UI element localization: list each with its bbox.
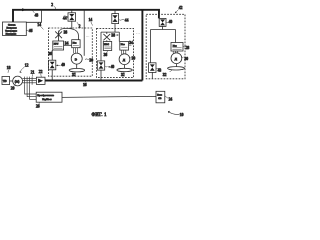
svg-text:2: 2 (51, 3, 53, 7)
fan motor circle outdoor (171, 53, 182, 64)
node label 28 outdoor (183, 45, 185, 47)
heat exchanger box HX1 left (53, 41, 64, 50)
node label 30 left (85, 58, 89, 61)
svg-text:34: 34 (129, 41, 133, 45)
svg-text:14: 14 (89, 18, 93, 22)
svg-text:34: 34 (65, 42, 69, 46)
svg-text:12: 12 (25, 63, 29, 67)
node label 34 middle (129, 44, 131, 46)
fan blade lens middle (124, 65, 126, 69)
svg-text:43: 43 (158, 69, 162, 73)
svg-text:44: 44 (125, 18, 129, 22)
node label 12 curved arrow (20, 67, 24, 72)
valve V44b middle top (114, 10, 116, 32)
heat exchanger box HX2 middle (120, 42, 129, 51)
node label 40 outdoor (166, 21, 168, 23)
svg-text:24: 24 (169, 98, 173, 102)
node label 32 left (75, 72, 76, 73)
node label 24 (165, 96, 168, 98)
svg-text:36: 36 (48, 52, 52, 56)
valve V40b middle bottom (97, 61, 104, 70)
svg-text:21: 21 (31, 71, 35, 75)
fan motor circle left (71, 53, 82, 64)
wire middle header (101, 32, 119, 61)
fan motor circle middle (119, 54, 130, 65)
svg-text:Пер/Пост: Пер/Пост (42, 99, 51, 101)
wire bold riser (141, 10, 143, 81)
wire top main pipe (13, 10, 159, 22)
converter box U26 (36, 92, 62, 102)
svg-text:ТЭ: ТЭ (3, 80, 7, 83)
valve V40c outdoor top (159, 18, 166, 26)
svg-text:30: 30 (184, 57, 188, 61)
node label 10 curved arrow (168, 111, 179, 114)
wire converter to OB box (62, 96, 156, 97)
svg-text:ФИГ. 1: ФИГ. 1 (92, 113, 108, 118)
svg-text:40: 40 (61, 63, 65, 67)
valve V43 outdoor bottom (149, 63, 156, 73)
valve V40a left bottom (49, 60, 56, 70)
node label 2 squiggle (77, 22, 78, 24)
svg-text:32: 32 (163, 73, 167, 77)
svg-text:32: 32 (72, 73, 76, 77)
fan blade lens left (76, 64, 78, 68)
control unit box U46 (3, 22, 27, 36)
svg-text:Система: Система (8, 24, 16, 26)
wire between HX boxes (64, 44, 72, 46)
shaft hatching (25, 77, 32, 85)
heat exchanger box outdoor (171, 43, 183, 52)
svg-text:30: 30 (89, 58, 93, 62)
expansion valve X left (55, 31, 62, 41)
wire gas drop pipe left (83, 10, 85, 56)
wire control box to pipe (26, 10, 41, 22)
expansion valve X middle (103, 34, 110, 40)
wire arrowhead on top pipe (22, 8, 27, 11)
wire HX1 down to valve left (51, 50, 53, 60)
svg-text:···: ··· (86, 33, 90, 38)
svg-text:44: 44 (63, 17, 67, 21)
svg-text:26: 26 (36, 105, 40, 109)
svg-text:18: 18 (7, 66, 11, 70)
wire valve to bottom pipe middle (100, 70, 102, 80)
svg-text:(М): (М) (15, 79, 20, 83)
wires down to converter (25, 85, 37, 100)
svg-text:36: 36 (104, 53, 108, 57)
dashed enclosure middle indoor unit (97, 28, 134, 77)
svg-text:Помещения: Помещения (6, 33, 16, 35)
svg-text:ОВ: ОВ (158, 98, 162, 100)
node label 46 (26, 29, 28, 32)
node label 40 middle (105, 66, 107, 68)
heat exchanger box HX1 middle (103, 42, 111, 51)
fan legs left (74, 48, 78, 54)
pump box P (36, 77, 45, 84)
svg-text:28: 28 (186, 46, 190, 50)
fan blade lens outdoor (175, 64, 177, 67)
svg-text:НРТ: НРТ (54, 43, 59, 46)
heat exchanger box HX2 left (72, 40, 80, 48)
pipe arch left unit (59, 28, 79, 39)
svg-text:38: 38 (64, 30, 68, 34)
OB unit box U24 (156, 91, 165, 103)
svg-text:16: 16 (83, 83, 87, 87)
node label 43 (156, 67, 158, 69)
svg-text:22: 22 (39, 70, 43, 74)
wire valve to dashed bottom (151, 72, 153, 78)
svg-text:14: 14 (37, 23, 41, 27)
fan legs outdoor (173, 51, 177, 53)
svg-text:30: 30 (132, 56, 136, 60)
svg-text:38: 38 (111, 34, 115, 38)
svg-text:···: ··· (136, 31, 140, 36)
node label 30 outdoor (182, 56, 183, 58)
wire valve to bottom pipe left (51, 70, 53, 81)
node label 44 middle (119, 18, 124, 21)
svg-text:20: 20 (11, 87, 15, 91)
node label 30 middle (130, 56, 131, 58)
svg-text:Преобразователь: Преобразователь (37, 94, 54, 97)
svg-text:46: 46 (29, 29, 33, 33)
dashed enclosure left indoor unit (49, 28, 93, 76)
svg-text:42: 42 (179, 6, 183, 10)
motor M circle (13, 76, 23, 86)
svg-text:Температуры: Температуры (5, 30, 17, 32)
svg-text:Контроля и: Контроля и (7, 27, 18, 29)
wire outdoor header (151, 26, 176, 62)
svg-text:32: 32 (121, 73, 125, 77)
fan legs middle (122, 50, 126, 54)
wire bottom main pipe (45, 80, 142, 82)
svg-text:40: 40 (111, 65, 115, 69)
node label 32 outdoor (170, 70, 172, 72)
svg-text:48: 48 (35, 14, 39, 18)
shaft three-line bundle (22, 79, 36, 83)
wire T3 to motor (10, 80, 13, 82)
svg-text:10: 10 (180, 113, 184, 117)
fuel source box T3 (2, 77, 10, 85)
dashed enclosure outdoor unit (146, 14, 185, 79)
svg-text:40: 40 (169, 20, 173, 24)
node label 40 left (56, 65, 58, 66)
valve V44a left top (71, 10, 73, 29)
svg-text:НВС: НВС (104, 43, 109, 46)
node label 32 middle (123, 72, 124, 73)
